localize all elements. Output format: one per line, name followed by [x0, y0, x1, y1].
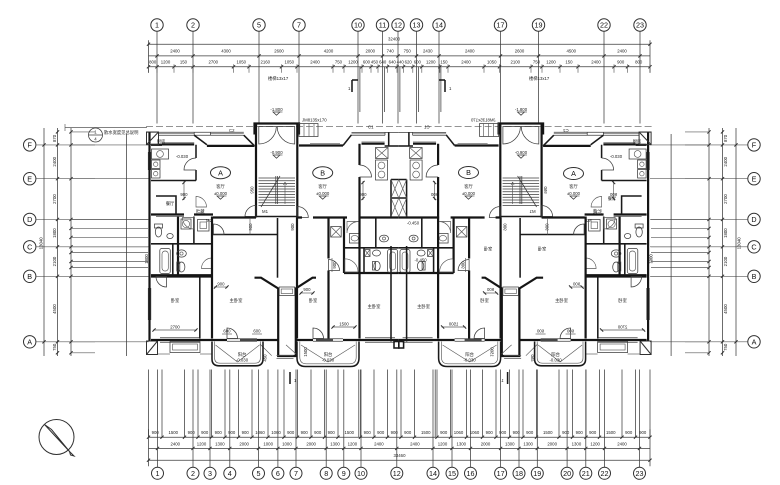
svg-text:13040: 13040: [737, 237, 742, 250]
svg-text:A: A: [752, 338, 757, 347]
svg-text:900: 900: [562, 430, 570, 435]
window W top kitchenB: [352, 131, 399, 133]
svg-text:900: 900: [589, 430, 597, 435]
svg-text:2430: 2430: [423, 48, 433, 53]
svg-text:客厅: 客厅: [216, 183, 225, 190]
svg-text:B: B: [466, 168, 471, 177]
balcony B door opening: [313, 338, 343, 340]
bath A basin: [167, 234, 173, 239]
dim marks balcony A: [222, 333, 232, 335]
bath B wc lower: [374, 261, 380, 270]
svg-text:900: 900: [248, 223, 253, 231]
center notch: [394, 342, 399, 349]
svg-text:800: 800: [635, 60, 643, 65]
bedroom A2 door fan: [214, 224, 225, 235]
svg-text:900: 900: [287, 430, 295, 435]
svg-text:1: 1: [156, 469, 160, 478]
svg-text:21: 21: [582, 469, 590, 478]
balcony A diagonals: [216, 345, 238, 362]
bay chamfer A2: [244, 135, 255, 146]
svg-text:2000: 2000: [239, 442, 249, 447]
svg-text:厨房: 厨房: [157, 138, 166, 145]
svg-text:18: 18: [515, 469, 523, 478]
unit label A right: [564, 168, 584, 180]
left dimension chains: [39, 128, 149, 356]
svg-text:17: 17: [497, 469, 505, 478]
svg-text:750: 750: [335, 60, 343, 65]
detail marker note: [65, 124, 147, 142]
svg-text:1050: 1050: [236, 60, 246, 65]
svg-text:B: B: [752, 272, 757, 281]
stair bottom landing wall: [256, 216, 297, 218]
section mark 1: [289, 372, 291, 384]
svg-text:2400: 2400: [410, 442, 420, 447]
entrance double door arcs: [259, 127, 277, 145]
svg-text:900: 900: [617, 60, 625, 65]
svg-text:A: A: [571, 169, 576, 178]
svg-text:13: 13: [413, 21, 421, 30]
svg-text:900: 900: [625, 430, 633, 435]
svg-text:客厅: 客厅: [569, 183, 578, 190]
hallway A wall: [211, 217, 213, 339]
bath A basin2: [177, 250, 187, 257]
svg-text:A: A: [218, 168, 223, 177]
svg-text:F: F: [752, 141, 757, 150]
svg-text:900: 900: [486, 430, 494, 435]
kitchen A counter: [152, 149, 169, 159]
svg-text:750: 750: [723, 343, 728, 351]
stair treads: [259, 176, 296, 207]
svg-text:1200: 1200: [590, 442, 600, 447]
svg-text:950: 950: [250, 186, 255, 194]
svg-text:1800: 1800: [144, 254, 149, 264]
bath A tub: [160, 249, 171, 274]
svg-text:900: 900: [188, 430, 196, 435]
bath B basin lower: [373, 250, 381, 256]
corridor lower line: [156, 216, 184, 218]
svg-text:440: 440: [397, 60, 405, 65]
bath B toilet upper: [380, 235, 389, 242]
top wall B segment: [299, 144, 343, 146]
floor plan left half: [144, 118, 399, 385]
svg-text:2100: 2100: [510, 60, 520, 65]
svg-text:1: 1: [155, 21, 159, 30]
svg-text:23: 23: [636, 469, 644, 478]
svg-text:900: 900: [440, 430, 448, 435]
svg-text:餐厅: 餐厅: [608, 195, 617, 202]
svg-text:楼梯13x17: 楼梯13x17: [268, 75, 289, 82]
left letter axis bubbles F-A: [24, 139, 149, 348]
light well walls: [255, 278, 317, 356]
svg-text:1050: 1050: [487, 60, 497, 65]
svg-text:2: 2: [191, 21, 195, 30]
svg-text:2400: 2400: [465, 48, 475, 53]
svg-text:4500: 4500: [52, 304, 57, 314]
svg-text:1200: 1200: [197, 442, 207, 447]
svg-text:2400: 2400: [374, 442, 384, 447]
svg-text:900: 900: [215, 430, 223, 435]
svg-text:B: B: [320, 169, 325, 178]
bath B basin rect: [350, 234, 361, 244]
svg-text:C1: C1: [368, 124, 374, 129]
svg-text:900: 900: [180, 192, 188, 197]
svg-text:2400: 2400: [723, 156, 728, 166]
top axis bubbles 1-23: [151, 19, 646, 31]
svg-text:主卧室: 主卧室: [555, 297, 569, 304]
balcony A: [212, 342, 263, 366]
bath B door fan lower: [345, 259, 358, 272]
svg-text:卧室: 卧室: [484, 246, 493, 253]
svg-text:餐厅: 餐厅: [166, 200, 175, 207]
svg-text:1050: 1050: [284, 60, 294, 65]
unit A storage wall: [156, 196, 176, 215]
svg-text:620: 620: [405, 60, 413, 65]
svg-text:33460: 33460: [394, 453, 407, 458]
svg-text:2400: 2400: [52, 156, 57, 166]
svg-text:D: D: [27, 215, 32, 224]
svg-text:2700: 2700: [170, 325, 180, 330]
bottom tick grid lines: [149, 370, 651, 438]
bay chamfer A1: [194, 135, 207, 145]
svg-text:-0.450: -0.450: [415, 257, 428, 262]
closet shaft box: [331, 227, 342, 238]
window W top kitchenA: [159, 133, 195, 135]
svg-text:450: 450: [371, 60, 379, 65]
center bay wall: [385, 145, 399, 147]
svg-text:2600: 2600: [274, 48, 284, 53]
bottom minor dimension row: [147, 430, 652, 439]
svg-text:M1: M1: [262, 209, 269, 214]
center wall lower: [390, 246, 392, 342]
shaft cross lines: [391, 180, 399, 199]
level -0.900 right stair: [515, 150, 528, 158]
svg-text:卧室: 卧室: [171, 297, 180, 304]
svg-text:1800: 1800: [52, 228, 57, 238]
svg-text:14: 14: [435, 21, 443, 30]
svg-text:750: 750: [52, 343, 57, 351]
bath A door fan: [182, 218, 194, 230]
bedroom B walls: [296, 218, 298, 339]
svg-text:22: 22: [600, 21, 608, 30]
window W top livingA: [210, 133, 243, 135]
bottom dimension lines: [149, 429, 651, 466]
svg-text:-0.030: -0.030: [176, 154, 189, 159]
svg-text:1300: 1300: [330, 442, 340, 447]
top wall mid A: [207, 145, 255, 147]
svg-text:1060: 1060: [255, 430, 265, 435]
right letter axis bubbles F-A: [650, 139, 760, 348]
window bottom right: [365, 337, 395, 339]
svg-text:19: 19: [535, 21, 543, 30]
top minor dimension row: [147, 60, 652, 73]
outer wall bottom: [151, 339, 227, 341]
svg-text:900: 900: [364, 430, 372, 435]
svg-text:7: 7: [294, 469, 298, 478]
svg-text:900: 900: [228, 430, 236, 435]
svg-text:19: 19: [533, 469, 541, 478]
svg-text:600: 600: [414, 60, 422, 65]
unit B entry door fan: [297, 207, 308, 218]
bath A walls: [177, 217, 179, 277]
kitchen B sill wall: [362, 143, 385, 145]
svg-text:卧室: 卧室: [538, 246, 547, 253]
svg-text:D: D: [751, 215, 756, 224]
floor plan right half (mirror): [399, 118, 654, 385]
svg-text:900: 900: [404, 430, 412, 435]
svg-text:900: 900: [152, 430, 160, 435]
svg-text:-1.800: -1.800: [270, 107, 283, 112]
svg-text:32400: 32400: [388, 37, 401, 42]
svg-text:1300: 1300: [215, 442, 225, 447]
svg-text:1300: 1300: [523, 442, 533, 447]
svg-text:900: 900: [639, 430, 647, 435]
svg-text:主卧室: 主卧室: [417, 303, 431, 310]
svg-text:-1.800: -1.800: [515, 107, 528, 112]
svg-text:-0.030: -0.030: [464, 358, 477, 363]
kitchen A sill wall: [151, 144, 162, 146]
svg-text:900: 900: [526, 430, 534, 435]
bath A wc2: [178, 262, 185, 272]
top dimension lines: [149, 40, 651, 73]
svg-text:2160: 2160: [260, 60, 270, 65]
svg-text:2700: 2700: [52, 194, 57, 204]
svg-text:2400: 2400: [310, 60, 320, 65]
svg-text:5: 5: [257, 469, 261, 478]
north arrow compass: [39, 420, 74, 457]
corner box top-left: [147, 132, 159, 145]
svg-text:M2: M2: [206, 218, 213, 223]
level -1.800 right porch: [515, 107, 528, 115]
svg-text:2400: 2400: [170, 442, 180, 447]
svg-text:2400: 2400: [170, 48, 180, 53]
svg-text:13040: 13040: [39, 237, 44, 250]
svg-text:1500: 1500: [543, 430, 553, 435]
dim mark kitchen B: [362, 181, 364, 200]
svg-text:±0.000: ±0.000: [214, 191, 228, 196]
svg-text:C: C: [27, 243, 32, 252]
svg-text:600: 600: [363, 60, 371, 65]
svg-text:1300: 1300: [505, 442, 515, 447]
section mark 1 top: [351, 80, 353, 92]
svg-text:900: 900: [332, 261, 337, 269]
svg-text:2600: 2600: [515, 48, 525, 53]
svg-text:900: 900: [314, 430, 322, 435]
svg-text:2700: 2700: [723, 194, 728, 204]
svg-text:散水宽度见总说明: 散水宽度见总说明: [104, 129, 138, 136]
svg-text:17: 17: [497, 21, 505, 30]
bay chamfer B: [343, 135, 352, 146]
svg-text:900: 900: [328, 430, 336, 435]
svg-text:2000: 2000: [547, 442, 557, 447]
shaft walls: [391, 180, 399, 217]
svg-text:2400: 2400: [591, 60, 601, 65]
hallway A vert wall: [277, 218, 279, 278]
svg-text:2100: 2100: [52, 256, 57, 266]
svg-text:客厅: 客厅: [464, 183, 473, 190]
svg-text:B: B: [27, 272, 32, 281]
light well sill: [277, 355, 294, 357]
svg-text:900: 900: [217, 282, 225, 287]
svg-text:900: 900: [242, 430, 250, 435]
svg-text:1300: 1300: [572, 442, 582, 447]
svg-text:23: 23: [636, 21, 644, 30]
bath B niche: [365, 250, 371, 257]
balcony B diagonals: [301, 345, 328, 362]
level -0.900 left stair: [270, 150, 283, 158]
svg-text:870: 870: [52, 134, 57, 142]
svg-text:2: 2: [191, 469, 195, 478]
svg-text:150: 150: [440, 60, 448, 65]
corner box bottom-left: [147, 341, 158, 355]
svg-text:1000: 1000: [282, 442, 292, 447]
svg-text:12: 12: [393, 469, 401, 478]
svg-text:1060: 1060: [470, 430, 480, 435]
unit B kitchen door arc: [360, 165, 372, 177]
unit label B right: [459, 167, 479, 179]
svg-text:E: E: [752, 174, 757, 183]
bath B door fan upper: [347, 222, 359, 234]
unit A entry door fan: [245, 206, 256, 217]
svg-text:900: 900: [303, 287, 311, 292]
corridor wall: [151, 215, 399, 218]
kitchen A door arc: [184, 158, 196, 170]
svg-text:750: 750: [404, 48, 412, 53]
svg-text:1200: 1200: [348, 442, 358, 447]
svg-text:-0.030: -0.030: [236, 358, 249, 363]
svg-text:5: 5: [257, 21, 261, 30]
svg-text:12: 12: [394, 21, 402, 30]
svg-text:1060: 1060: [271, 430, 281, 435]
svg-text:10: 10: [354, 21, 362, 30]
svg-text:14: 14: [429, 469, 437, 478]
svg-text:870: 870: [723, 134, 728, 142]
svg-text:±0.000: ±0.000: [567, 191, 581, 196]
stair core walls: [255, 124, 257, 218]
svg-text:15: 15: [448, 469, 456, 478]
svg-text:2400: 2400: [617, 442, 627, 447]
svg-text:卧室: 卧室: [309, 297, 318, 304]
svg-text:1500: 1500: [421, 430, 431, 435]
svg-text:1000: 1000: [263, 442, 273, 447]
window left wall kitchen: [147, 152, 149, 170]
entrance outside steps: [299, 124, 318, 137]
svg-text:16: 16: [467, 469, 475, 478]
svg-text:150: 150: [180, 60, 188, 65]
svg-text:-0.900: -0.900: [515, 150, 528, 155]
balcony A door opening: [227, 338, 257, 340]
svg-text:900: 900: [576, 430, 584, 435]
unit B kitchen counter: [376, 148, 389, 159]
svg-text:2400: 2400: [617, 48, 627, 53]
bath A shower tray: [198, 220, 210, 232]
svg-text:4200: 4200: [324, 48, 334, 53]
svg-text:600: 600: [223, 329, 231, 334]
svg-text:1200: 1200: [438, 442, 448, 447]
svg-text:JM8135x170: JM8135x170: [302, 118, 327, 123]
unit B kitchen wall: [358, 144, 360, 218]
svg-text:A: A: [27, 338, 32, 347]
svg-text:11: 11: [379, 21, 386, 30]
window left wall bedroom: [147, 288, 149, 320]
svg-text:-0.030: -0.030: [550, 358, 563, 363]
balcony B: [297, 342, 359, 367]
svg-text:±0.000: ±0.000: [462, 191, 476, 196]
svg-text:7: 7: [297, 21, 301, 30]
dim mark bedroom B2 width: [332, 326, 356, 328]
svg-text:900: 900: [359, 192, 367, 197]
svg-text:1200: 1200: [348, 60, 358, 65]
svg-text:2000: 2000: [365, 48, 375, 53]
svg-text:1500: 1500: [344, 430, 354, 435]
svg-text:1200: 1200: [426, 60, 436, 65]
bedroom B2 door fan: [329, 260, 340, 271]
right dimension chains: [651, 128, 742, 356]
svg-text:1200: 1200: [546, 60, 556, 65]
svg-text:800: 800: [149, 60, 157, 65]
kitchen A wall: [151, 145, 196, 181]
top axis grid lines: [157, 32, 640, 124]
unit label B left: [313, 167, 333, 179]
bath A toilet: [155, 227, 161, 237]
dining A door fan: [196, 197, 207, 208]
svg-text:20: 20: [563, 469, 571, 478]
svg-text:主卧室: 主卧室: [368, 303, 382, 310]
svg-text:-0.900: -0.900: [270, 150, 283, 155]
svg-text:900: 900: [377, 430, 385, 435]
eave mitre diagonals: [260, 344, 272, 356]
svg-text:4300: 4300: [221, 48, 231, 53]
svg-text:900: 900: [391, 430, 399, 435]
svg-text:1500: 1500: [168, 430, 178, 435]
svg-text:640: 640: [389, 60, 397, 65]
eave dashed line: [146, 126, 399, 128]
svg-text:1200: 1200: [161, 60, 171, 65]
svg-text:卧室: 卧室: [480, 297, 489, 304]
svg-text:900: 900: [301, 430, 309, 435]
bath A wc2 door fan: [202, 258, 213, 269]
top major dimension row: [155, 48, 641, 57]
dim 900 interior A2: [214, 286, 228, 288]
svg-text:1800: 1800: [723, 228, 728, 238]
outer wall left: [148, 132, 150, 341]
svg-text:-0.450: -0.450: [407, 221, 420, 226]
svg-text:1500: 1500: [606, 430, 616, 435]
svg-text:2700: 2700: [208, 60, 218, 65]
svg-text:1060: 1060: [454, 430, 464, 435]
svg-text:4: 4: [228, 469, 232, 478]
svg-text:1300: 1300: [456, 442, 466, 447]
svg-text:150: 150: [565, 60, 573, 65]
svg-text:22: 22: [601, 469, 609, 478]
svg-text:4500: 4500: [723, 304, 728, 314]
svg-text:-0.030: -0.030: [610, 154, 623, 159]
section mark 1 top right: [444, 80, 446, 92]
svg-text:客厅: 客厅: [318, 183, 327, 190]
small planter left: [170, 342, 200, 353]
light well AC platform: [279, 287, 295, 296]
svg-text:厨房: 厨房: [633, 138, 642, 145]
svg-text:F: F: [28, 141, 33, 150]
svg-text:750: 750: [533, 60, 541, 65]
dim mark kitchen A: [183, 181, 185, 200]
unit label A left: [211, 167, 231, 179]
svg-text:主卧室: 主卧室: [230, 297, 244, 304]
svg-text:C: C: [751, 243, 756, 252]
svg-text:900: 900: [201, 430, 209, 435]
svg-text:2000: 2000: [481, 442, 491, 447]
bottom major dimension row: [156, 370, 641, 468]
bedroom A1 walls: [199, 277, 201, 339]
